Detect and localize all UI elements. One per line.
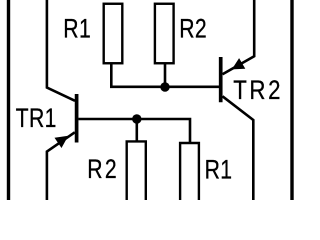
resistor R2 (top right): [155, 4, 174, 64]
svg-text:R2: R2: [87, 155, 119, 185]
wire: R1 bottom down and across to TR2 base: [111, 63, 220, 87]
wire: TR2 emitter up to top rail: [223, 0, 255, 74]
wire: TR1 base across to R1 (bottom) top: [78, 119, 190, 143]
wire: TR1 collector up to top rail: [47, 0, 75, 101]
svg-text:R1: R1: [63, 14, 91, 44]
wire: TR2 collector down to bottom rail: [223, 96, 254, 200]
resistor R1 (top left): [104, 4, 123, 64]
resistor R2 (bottom left): [127, 141, 146, 200]
resistor R1 (bottom right): [180, 143, 199, 200]
svg-text:R2: R2: [179, 14, 207, 44]
svg-text:R1: R1: [205, 155, 233, 185]
transistor TR2 base bar: [219, 57, 223, 102]
transistor TR1 base bar: [75, 94, 79, 143]
node: junction dot on TR1 base wire: [132, 114, 141, 123]
wire: right supply rail: [290, 0, 293, 200]
svg-text:TR2: TR2: [233, 76, 283, 105]
node: junction dot on TR2 base wire: [160, 82, 169, 91]
transistor TR2 emitter arrow (PNP, points to bar): [232, 58, 246, 69]
wire: TR1 emitter down to bottom rail: [47, 132, 75, 200]
transistor TR1 emitter arrow (PNP, points to bar): [55, 136, 69, 148]
wire: left supply rail: [7, 0, 10, 200]
svg-text:TR1: TR1: [16, 104, 57, 134]
wire: stub down to R2 (bottom) top: [136, 119, 139, 141]
wire: R2 bottom stub down to base wire: [164, 63, 167, 87]
